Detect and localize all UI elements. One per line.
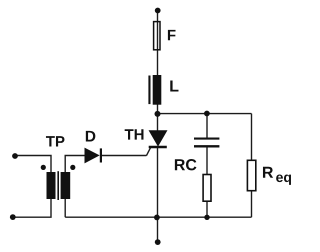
label L	[170, 80, 178, 91]
label RC	[175, 159, 197, 170]
wire	[206, 114, 208, 138]
node polarity dot (secondary)	[70, 165, 75, 170]
wire	[206, 202, 208, 217]
wire	[157, 11, 159, 76]
wire	[157, 147, 159, 218]
node terminal (bottom)	[155, 239, 161, 245]
resistor RC	[203, 175, 211, 202]
label D	[86, 131, 96, 142]
wire	[206, 147, 208, 175]
thyristor TH	[149, 131, 167, 147]
label TP	[46, 136, 64, 146]
wire	[15, 156, 51, 173]
resistor Req	[247, 160, 255, 190]
fuse F	[154, 22, 160, 50]
capacitor (snubber C)	[194, 139, 219, 147]
wire	[251, 191, 253, 217]
label Req	[263, 167, 291, 185]
wire	[65, 216, 251, 218]
wire	[146, 147, 150, 155]
node terminal (input bottom)	[10, 214, 16, 220]
transformer TP	[47, 171, 71, 200]
wire	[251, 114, 253, 161]
node polarity dot (primary)	[41, 165, 46, 170]
node junction (anode node)	[155, 111, 161, 117]
label F	[168, 30, 176, 40]
inductor L	[148, 75, 161, 105]
wire	[101, 155, 146, 157]
node terminal (top)	[155, 8, 161, 14]
wire	[64, 199, 66, 217]
label TH	[125, 129, 144, 139]
wire	[158, 113, 252, 115]
node junction (RC/bus)	[204, 215, 209, 220]
wire	[157, 217, 159, 241]
diode D	[85, 148, 101, 162]
node terminal (input top)	[12, 153, 18, 159]
wire	[157, 105, 159, 132]
node junction (capacitor tap)	[204, 111, 210, 117]
wire	[65, 156, 85, 173]
node junction (cathode/bus)	[154, 215, 160, 221]
wire	[13, 199, 51, 217]
